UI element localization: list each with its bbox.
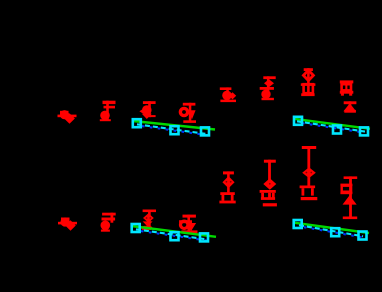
data point K (red: capped error bar + filled circle)	[101, 213, 116, 232]
model line TR blue dashed	[297, 122, 365, 132]
data point M (red: error bar + open circle + filled triangle)	[179, 215, 197, 234]
model line BL blue dashed	[136, 230, 208, 240]
model line BL green solid	[132, 226, 217, 237]
marker square BR1	[294, 220, 302, 228]
data point A (red blob: circle + diamond + cap)	[58, 110, 77, 124]
model line BR blue dashed	[299, 226, 363, 237]
marker square BR3	[359, 232, 367, 240]
marker square TL3	[201, 127, 209, 135]
marker square BL1	[132, 224, 140, 232]
data point E (red: error bar + circle + small diamond)	[220, 87, 236, 102]
data point J (red blob: circle + diamond + cap)	[58, 217, 77, 230]
marker square BR2	[331, 228, 339, 236]
model line BR cyan dashed	[299, 225, 363, 236]
marker square TR3	[360, 127, 368, 135]
model line TR green solid	[294, 119, 370, 129]
model line TR cyan dashed	[297, 121, 365, 131]
data point F (red: error bar + diamond + circle stacked)	[260, 76, 276, 100]
data point G (red: error bar + open diamond + open square)	[301, 68, 316, 96]
data point C (red: error bar + circle + down triangle)	[139, 101, 155, 119]
data point P (red: long error bar + filled diamond + open square marker)	[300, 146, 318, 200]
data point N (red: error bar + filled diamond + open square marker)	[219, 171, 235, 203]
data point Q (red: error bar + open square + filled up triangle)	[340, 176, 357, 219]
marker square TR2	[333, 126, 341, 134]
marker square TL1	[133, 119, 141, 127]
model line TL green solid	[133, 121, 215, 130]
model line TL blue dashed	[137, 125, 209, 135]
model line BL cyan dashed	[136, 229, 208, 239]
marker square BL2	[171, 232, 179, 240]
marker square TR1	[294, 117, 302, 125]
marker square BL3	[200, 233, 208, 241]
data point I (red: cap + filled up triangle)	[343, 101, 356, 112]
data point H (red: open square with caps)	[340, 80, 354, 95]
model line BR green solid	[294, 223, 369, 233]
data point B (red: capped error bar + filled circle)	[100, 101, 116, 122]
data point O (red: long error bar + filled diamond + open square marker)	[260, 160, 277, 207]
data point L (red: error bar + filled diamond + down triangle + open ellipse)	[142, 210, 156, 230]
marker square TL2	[171, 126, 179, 134]
model line TL cyan dashed	[137, 124, 209, 134]
data point D (red: error bar + open circle + filled triangle)	[180, 103, 196, 123]
